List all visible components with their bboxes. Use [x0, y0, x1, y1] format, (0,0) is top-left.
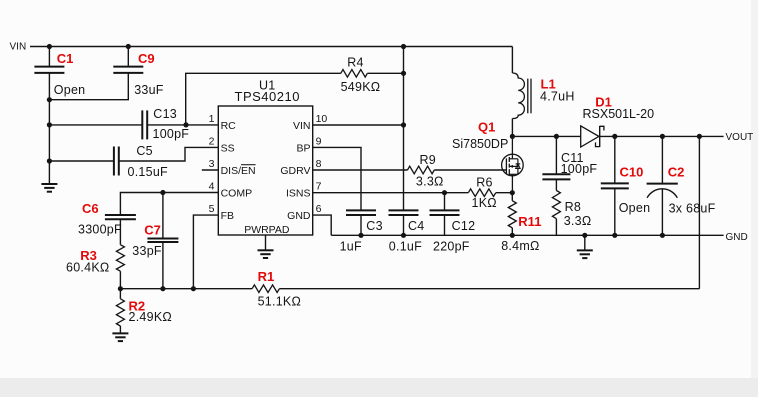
transistor Q1 gate bar: [505, 158, 507, 174]
wire C4 bottom: [403, 215, 405, 235]
capacitor C13: [141, 110, 143, 139]
capacitor C9 top wire: [127, 47, 129, 67]
svg-text:1: 1: [209, 113, 215, 125]
svg-text:C9: C9: [138, 51, 155, 66]
wire diode to VOUT: [600, 135, 724, 137]
wire R9 to gate: [434, 169, 506, 171]
svg-text:3300pF: 3300pF: [78, 223, 122, 237]
svg-text:8: 8: [316, 158, 322, 170]
svg-text:C5: C5: [136, 144, 152, 158]
svg-text:9: 9: [316, 136, 322, 148]
svg-text:PWRPAD: PWRPAD: [244, 224, 290, 236]
wire VOUT to R1 riser: [698, 136, 700, 288]
svg-text:GND: GND: [726, 232, 748, 243]
svg-text:6: 6: [316, 203, 322, 215]
svg-text:1uF: 1uF: [340, 240, 362, 254]
resistor R3: [116, 245, 124, 272]
wire GDRV pin 8: [313, 169, 408, 171]
svg-text:1KΩ: 1KΩ: [472, 196, 497, 210]
capacitor C11: [542, 173, 570, 175]
capacitor C9: [113, 66, 143, 68]
svg-text:C13: C13: [153, 107, 177, 121]
pin 3 stub: [202, 169, 219, 171]
junction C1-C5: [47, 158, 52, 163]
junction node-FB: [191, 286, 196, 291]
junction C1-C13: [47, 122, 52, 127]
svg-text:C4: C4: [408, 219, 424, 233]
svg-text:RC: RC: [221, 120, 237, 132]
capacitor C5: [113, 147, 115, 176]
svg-text:2: 2: [209, 136, 215, 148]
transistor Q1 bottom bar: [509, 173, 518, 175]
wire C10 bottom: [614, 188, 616, 235]
svg-text:4: 4: [209, 181, 215, 193]
junction VIN pin column: [401, 122, 406, 127]
junction L1-drain-rail: [510, 134, 515, 139]
wire R4 right: [367, 72, 403, 74]
junction rail-C3: [358, 233, 363, 238]
svg-text:Si7850DP: Si7850DP: [452, 137, 508, 151]
svg-text:C2: C2: [668, 165, 685, 180]
wire C12 top: [444, 193, 446, 211]
wire R6 to source: [496, 192, 513, 194]
svg-text:R6: R6: [476, 175, 492, 189]
wire source to R11: [511, 193, 513, 201]
wire R11 bottom: [511, 228, 513, 236]
wire C7 top: [162, 193, 164, 239]
wire C9 bottom: [49, 73, 128, 100]
svg-text:C10: C10: [620, 165, 644, 180]
inductor L1 core bars: [527, 79, 529, 114]
wire R4 left vertical: [186, 73, 341, 125]
svg-text:100pF: 100pF: [153, 127, 190, 141]
junction rail-C10 top: [612, 134, 617, 139]
svg-text:3x 68uF: 3x 68uF: [669, 201, 716, 215]
capacitor C7: [147, 238, 178, 240]
wire R8 bottom: [555, 219, 557, 236]
wire rail to C4 column: [403, 47, 405, 211]
resistor R9: [408, 166, 435, 174]
svg-text:60.4KΩ: 60.4KΩ: [66, 261, 110, 275]
junction rail-R1 riser: [697, 134, 702, 139]
wire GND pin 6: [313, 215, 332, 235]
junction rail-C10: [612, 233, 617, 238]
transistor Q1 circle: [502, 154, 524, 176]
wire FB pin 5: [193, 215, 218, 289]
resistor R1: [252, 285, 279, 293]
wire R3 bottom: [119, 271, 121, 289]
svg-text:3: 3: [209, 158, 215, 170]
svg-text:COMP: COMP: [221, 188, 253, 200]
svg-text:C6: C6: [82, 201, 99, 216]
capacitor C1: [34, 66, 64, 68]
wire VIN rail: [30, 46, 512, 48]
svg-text:SS: SS: [221, 142, 235, 154]
junction source-R6-R11: [510, 190, 515, 195]
ground under R2: [119, 332, 121, 334]
op-amp U1 box: [218, 106, 312, 235]
wire C11 top: [555, 136, 557, 174]
wire FB node line: [120, 288, 252, 290]
svg-text:51.1KΩ: 51.1KΩ: [258, 295, 302, 309]
wire C5 left: [49, 160, 114, 162]
wire GND rail: [331, 234, 723, 236]
svg-text:3.3Ω: 3.3Ω: [564, 214, 592, 228]
inductor L1 coil: [512, 73, 524, 119]
svg-text:BP: BP: [296, 142, 310, 154]
transistor Q1 channel dashes: [508, 157, 510, 162]
svg-text:8.4mΩ: 8.4mΩ: [501, 239, 539, 253]
junction COMP-C7: [160, 190, 165, 195]
svg-text:0.1uF: 0.1uF: [389, 240, 422, 254]
junction VIN-R4 column: [401, 44, 406, 49]
transistor Q1 body diode: [517, 159, 519, 175]
capacitor C2 top plate: [647, 183, 678, 185]
junction node-C7: [160, 286, 165, 291]
wire node to R2: [119, 289, 121, 299]
junction VIN-C9: [126, 44, 131, 49]
wire ISNS pin 7: [313, 192, 469, 194]
resistor R4: [341, 70, 368, 78]
transistor Q1 body arrow: [509, 165, 518, 167]
capacitor C4: [389, 209, 419, 211]
wire C13 to RC pin: [147, 124, 218, 126]
wire C2 bottom: [661, 189, 663, 235]
junction ISNS-C12: [442, 190, 447, 195]
capacitor C2 curved plate: [647, 189, 677, 198]
wire C11 to R8: [555, 179, 557, 190]
svg-text:C12: C12: [452, 219, 476, 233]
wire C1 bottom column: [48, 73, 50, 184]
transistor Q1 drain lead: [511, 136, 513, 158]
wire R2 bottom: [119, 326, 121, 333]
wire L1 to drain: [511, 119, 513, 137]
resistor R2: [116, 299, 124, 326]
ground on rail: [584, 235, 586, 250]
capacitor C10: [601, 182, 629, 184]
junction rail-C11: [554, 134, 559, 139]
svg-text:R9: R9: [420, 153, 436, 167]
svg-text:C1: C1: [57, 51, 74, 66]
wire COMP pin 4: [120, 193, 218, 216]
svg-text:TPS40210: TPS40210: [235, 89, 300, 104]
wire C2 top: [661, 136, 663, 183]
svg-text:R11: R11: [518, 214, 541, 229]
wire drain node to diode: [512, 135, 580, 137]
svg-text:GDRV: GDRV: [280, 165, 310, 177]
resistor R6: [468, 189, 496, 197]
svg-text:0.15uF: 0.15uF: [128, 165, 169, 179]
ground PWRPAD: [265, 235, 267, 250]
junction rail-R11: [510, 233, 515, 238]
junction R4 right: [401, 71, 406, 76]
svg-text:FB: FB: [221, 210, 234, 222]
svg-text:10: 10: [316, 113, 328, 125]
wire C12 bottom: [444, 215, 446, 235]
wire C6 to R3: [119, 219, 121, 244]
svg-text:7: 7: [316, 181, 322, 193]
wire C5 to SS pin: [119, 147, 219, 161]
junction C13-R4: [183, 122, 188, 127]
svg-text:4.7uH: 4.7uH: [540, 89, 575, 103]
ground under C1: [48, 183, 50, 185]
svg-text:3.3Ω: 3.3Ω: [416, 175, 444, 189]
svg-text:220pF: 220pF: [433, 240, 470, 254]
wire C10 top: [614, 136, 616, 183]
svg-text:33uF: 33uF: [134, 83, 164, 97]
wire VIN pin 10: [313, 124, 404, 126]
svg-text:2.49KΩ: 2.49KΩ: [129, 310, 173, 324]
transistor Q1 source lead: [511, 174, 513, 192]
svg-text:VIN: VIN: [293, 120, 311, 132]
capacitor C12: [430, 209, 460, 211]
svg-text:Q1: Q1: [478, 120, 495, 135]
svg-text:Open: Open: [619, 201, 651, 215]
junction rail-C4: [401, 233, 406, 238]
svg-text:RSX501L-20: RSX501L-20: [583, 107, 655, 121]
svg-text:R1: R1: [258, 269, 275, 284]
svg-text:33pF: 33pF: [132, 244, 162, 258]
capacitor C6: [105, 214, 136, 216]
svg-text:549KΩ: 549KΩ: [341, 80, 381, 94]
svg-text:VIN: VIN: [10, 42, 27, 53]
resistor R8: [552, 191, 560, 219]
svg-text:C3: C3: [366, 219, 382, 233]
svg-text:DIS/EN: DIS/EN: [221, 165, 256, 177]
wire C13 left: [49, 124, 142, 126]
svg-text:R4: R4: [347, 55, 363, 69]
junction VIN-C1: [47, 44, 52, 49]
resistor R11: [508, 201, 516, 228]
wire BP pin 9 to C3: [313, 147, 361, 210]
junction node-R3: [118, 286, 123, 291]
svg-text:VOUT: VOUT: [726, 132, 754, 143]
capacitor C3: [346, 209, 376, 211]
svg-text:100pF: 100pF: [561, 162, 598, 176]
capacitor C1 top wire: [48, 47, 50, 67]
svg-text:GND: GND: [287, 210, 311, 222]
junction rail-ground: [582, 233, 587, 238]
diode D1: [581, 126, 599, 147]
junction C1-C9 bottom: [47, 97, 52, 102]
transistor Q1 top bar: [509, 158, 518, 160]
junction rail-C2 top: [660, 134, 665, 139]
svg-text:R8: R8: [565, 200, 581, 214]
junction rail-C2: [660, 233, 665, 238]
svg-text:ISNS: ISNS: [286, 188, 311, 200]
svg-text:Open: Open: [54, 83, 86, 97]
wire R1 right: [279, 288, 699, 290]
wire C7 bottom: [162, 242, 164, 289]
page right margin: [751, 0, 758, 378]
wire rail corner to L1: [511, 47, 513, 74]
svg-text:5: 5: [209, 203, 215, 215]
svg-text:C7: C7: [144, 223, 161, 238]
wire C3 bottom: [360, 215, 362, 235]
